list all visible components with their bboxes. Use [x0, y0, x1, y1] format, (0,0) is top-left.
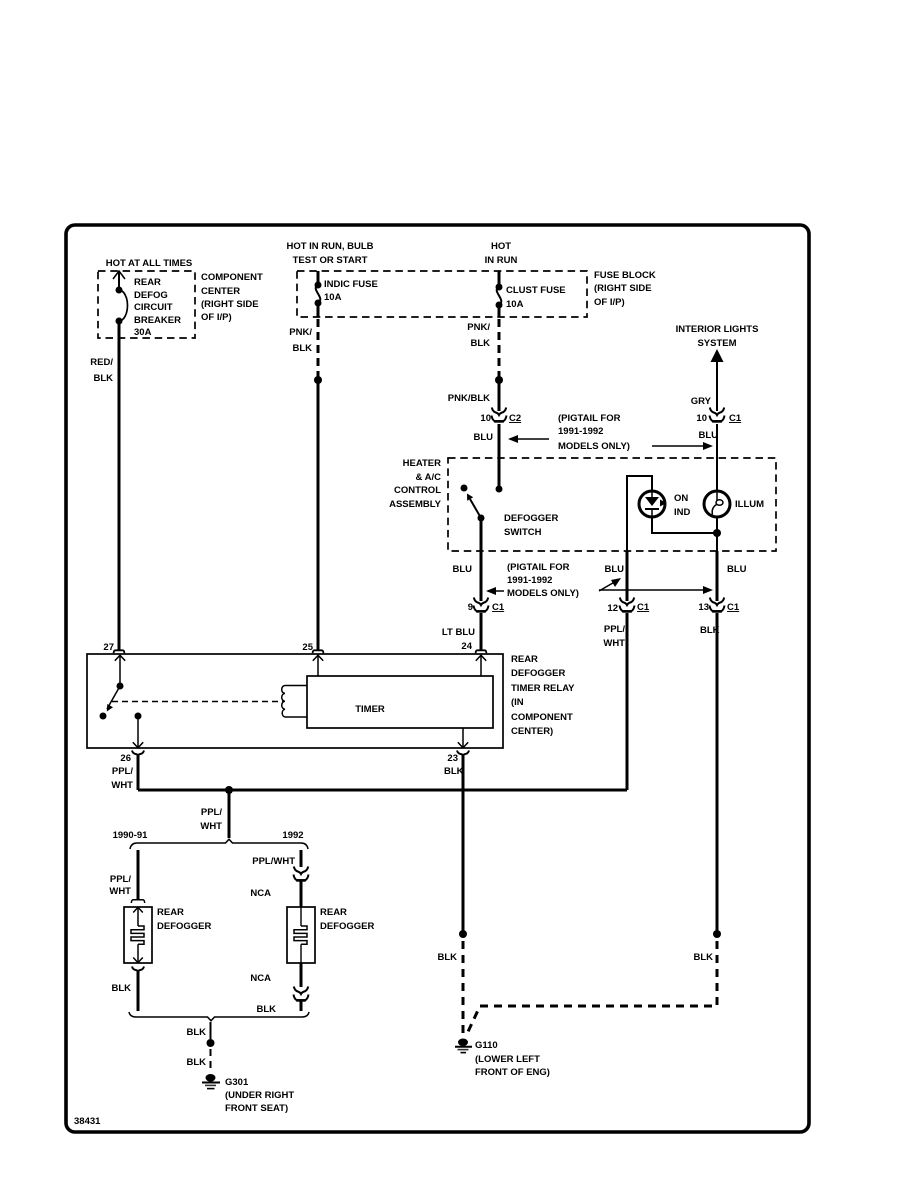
svg-text:23: 23: [447, 753, 458, 764]
svg-text:REAR: REAR: [320, 907, 347, 918]
svg-text:BLK: BLK: [256, 1004, 276, 1015]
svg-text:BLU: BLU: [727, 564, 747, 575]
svg-text:GRY: GRY: [691, 396, 712, 407]
svg-text:PNK/: PNK/: [289, 327, 312, 338]
svg-text:RED/: RED/: [90, 357, 113, 368]
svg-text:BLK: BLK: [444, 766, 464, 777]
svg-text:BLK: BLK: [93, 373, 113, 384]
svg-text:WHT: WHT: [200, 821, 222, 832]
svg-text:SWITCH: SWITCH: [504, 527, 542, 538]
svg-text:1990-91: 1990-91: [113, 830, 149, 841]
svg-text:BLU: BLU: [452, 564, 472, 575]
svg-text:IND: IND: [674, 507, 691, 518]
svg-text:(RIGHT SIDE: (RIGHT SIDE: [201, 299, 259, 310]
svg-text:C1: C1: [729, 413, 742, 424]
svg-text:BLK: BLK: [470, 338, 490, 349]
svg-text:C1: C1: [637, 602, 650, 613]
svg-text:BLU: BLU: [698, 430, 718, 441]
svg-text:NCA: NCA: [250, 973, 271, 984]
svg-text:DEFOGGER: DEFOGGER: [511, 668, 566, 679]
svg-text:DEFOGGER: DEFOGGER: [157, 921, 212, 932]
svg-text:PPL/WHT: PPL/WHT: [252, 856, 295, 867]
svg-text:(PIGTAIL FOR: (PIGTAIL FOR: [507, 562, 570, 573]
svg-text:C1: C1: [727, 602, 740, 613]
svg-text:FUSE BLOCK: FUSE BLOCK: [594, 270, 656, 281]
svg-text:(LOWER LEFT: (LOWER LEFT: [475, 1054, 540, 1065]
svg-text:ASSEMBLY: ASSEMBLY: [389, 499, 442, 510]
svg-text:TIMER RELAY: TIMER RELAY: [511, 683, 575, 694]
svg-text:COMPONENT: COMPONENT: [201, 272, 263, 283]
svg-text:FRONT OF ENG): FRONT OF ENG): [475, 1067, 550, 1078]
svg-text:MODELS ONLY): MODELS ONLY): [558, 441, 630, 452]
svg-text:(RIGHT SIDE: (RIGHT SIDE: [594, 283, 652, 294]
svg-text:BLK: BLK: [186, 1027, 206, 1038]
svg-text:REAR: REAR: [157, 907, 184, 918]
svg-text:CENTER): CENTER): [511, 726, 553, 737]
svg-text:REAR: REAR: [134, 277, 161, 288]
svg-text:INDIC FUSE: INDIC FUSE: [324, 279, 378, 290]
svg-text:10: 10: [696, 413, 707, 424]
svg-text:38431: 38431: [74, 1116, 101, 1127]
svg-text:24: 24: [461, 641, 472, 652]
svg-text:OF I/P): OF I/P): [594, 297, 625, 308]
svg-text:OF I/P): OF I/P): [201, 312, 232, 323]
svg-text:10A: 10A: [506, 299, 524, 310]
svg-text:PPL/: PPL/: [201, 807, 222, 818]
svg-text:26: 26: [120, 753, 131, 764]
svg-text:ON: ON: [674, 493, 688, 504]
svg-text:BLK: BLK: [693, 952, 713, 963]
svg-text:30A: 30A: [134, 327, 152, 338]
svg-text:TEST OR START: TEST OR START: [293, 255, 368, 266]
svg-text:1991-1992: 1991-1992: [507, 575, 552, 586]
svg-text:HOT IN RUN, BULB: HOT IN RUN, BULB: [286, 241, 373, 252]
svg-text:10A: 10A: [324, 292, 342, 303]
svg-text:BLK: BLK: [111, 983, 131, 994]
svg-text:LT BLU: LT BLU: [442, 627, 475, 638]
svg-text:(PIGTAIL FOR: (PIGTAIL FOR: [558, 413, 621, 424]
svg-text:G110: G110: [475, 1040, 498, 1051]
svg-text:WHT: WHT: [109, 886, 131, 897]
svg-text:INTERIOR LIGHTS: INTERIOR LIGHTS: [676, 324, 759, 335]
svg-text:BLK: BLK: [292, 343, 312, 354]
svg-text:COMPONENT: COMPONENT: [511, 712, 573, 723]
svg-text:BLK: BLK: [186, 1057, 206, 1068]
svg-text:ILLUM: ILLUM: [735, 499, 764, 510]
svg-text:PNK/: PNK/: [467, 322, 490, 333]
svg-text:25: 25: [302, 642, 313, 653]
svg-text:CONTROL: CONTROL: [394, 485, 441, 496]
svg-text:1992: 1992: [282, 830, 303, 841]
svg-text:BLU: BLU: [604, 564, 624, 575]
svg-text:DEFOGGER: DEFOGGER: [504, 513, 559, 524]
svg-text:BLK: BLK: [437, 952, 457, 963]
svg-text:PPL/: PPL/: [110, 874, 131, 885]
svg-text:SYSTEM: SYSTEM: [697, 338, 736, 349]
svg-text:12: 12: [607, 603, 618, 614]
svg-text:PPL/: PPL/: [112, 766, 133, 777]
svg-text:C1: C1: [492, 602, 505, 613]
svg-text:9: 9: [468, 602, 473, 613]
svg-text:HEATER: HEATER: [403, 458, 441, 469]
svg-text:10: 10: [480, 413, 491, 424]
svg-text:BREAKER: BREAKER: [134, 315, 181, 326]
svg-text:PPL/: PPL/: [604, 624, 625, 635]
svg-text:13: 13: [698, 602, 709, 613]
svg-text:PNK/BLK: PNK/BLK: [448, 393, 490, 404]
svg-text:IN RUN: IN RUN: [485, 255, 518, 266]
svg-text:MODELS ONLY): MODELS ONLY): [507, 588, 579, 599]
svg-text:TIMER: TIMER: [355, 704, 385, 715]
svg-text:CENTER: CENTER: [201, 286, 240, 297]
svg-text:BLK: BLK: [700, 625, 720, 636]
svg-text:DEFOG: DEFOG: [134, 290, 168, 301]
svg-text:C2: C2: [509, 413, 521, 424]
svg-text:FRONT SEAT): FRONT SEAT): [225, 1103, 288, 1114]
svg-text:G301: G301: [225, 1077, 249, 1088]
svg-text:BLU: BLU: [473, 432, 493, 443]
svg-text:& A/C: & A/C: [415, 472, 441, 483]
svg-text:HOT: HOT: [491, 241, 511, 252]
svg-text:CLUST FUSE: CLUST FUSE: [506, 285, 566, 296]
svg-text:WHT: WHT: [111, 780, 133, 791]
svg-text:WHT: WHT: [603, 638, 625, 649]
svg-text:27: 27: [103, 642, 114, 653]
svg-text:REAR: REAR: [511, 654, 538, 665]
svg-text:(IN: (IN: [511, 697, 524, 708]
svg-text:CIRCUIT: CIRCUIT: [134, 302, 173, 313]
svg-text:1991-1992: 1991-1992: [558, 426, 603, 437]
svg-text:NCA: NCA: [250, 888, 271, 899]
svg-text:(UNDER RIGHT: (UNDER RIGHT: [225, 1090, 294, 1101]
svg-text:HOT AT ALL TIMES: HOT AT ALL TIMES: [106, 258, 193, 269]
svg-text:DEFOGGER: DEFOGGER: [320, 921, 375, 932]
